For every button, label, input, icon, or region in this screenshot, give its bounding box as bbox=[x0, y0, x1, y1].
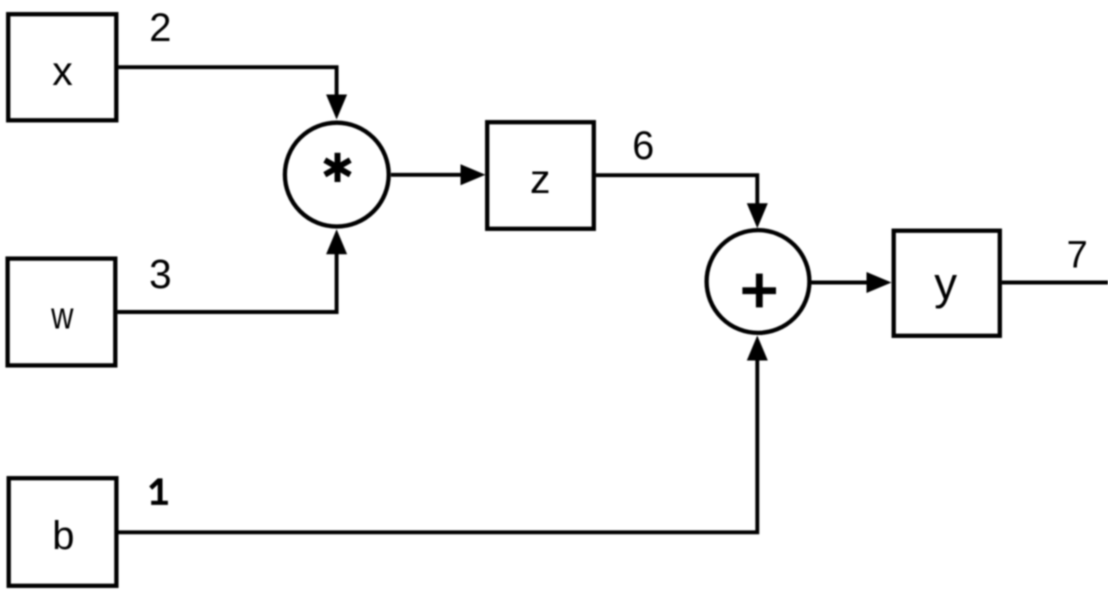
svg-text:x: x bbox=[52, 48, 73, 94]
svg-text:6: 6 bbox=[632, 124, 654, 168]
svg-text:3: 3 bbox=[149, 251, 172, 297]
svg-text:7: 7 bbox=[1067, 235, 1088, 277]
svg-text:2: 2 bbox=[149, 6, 171, 50]
svg-text:w: w bbox=[50, 295, 74, 337]
svg-text:z: z bbox=[530, 156, 551, 202]
svg-text:y: y bbox=[934, 258, 957, 309]
svg-text:b: b bbox=[52, 514, 74, 558]
